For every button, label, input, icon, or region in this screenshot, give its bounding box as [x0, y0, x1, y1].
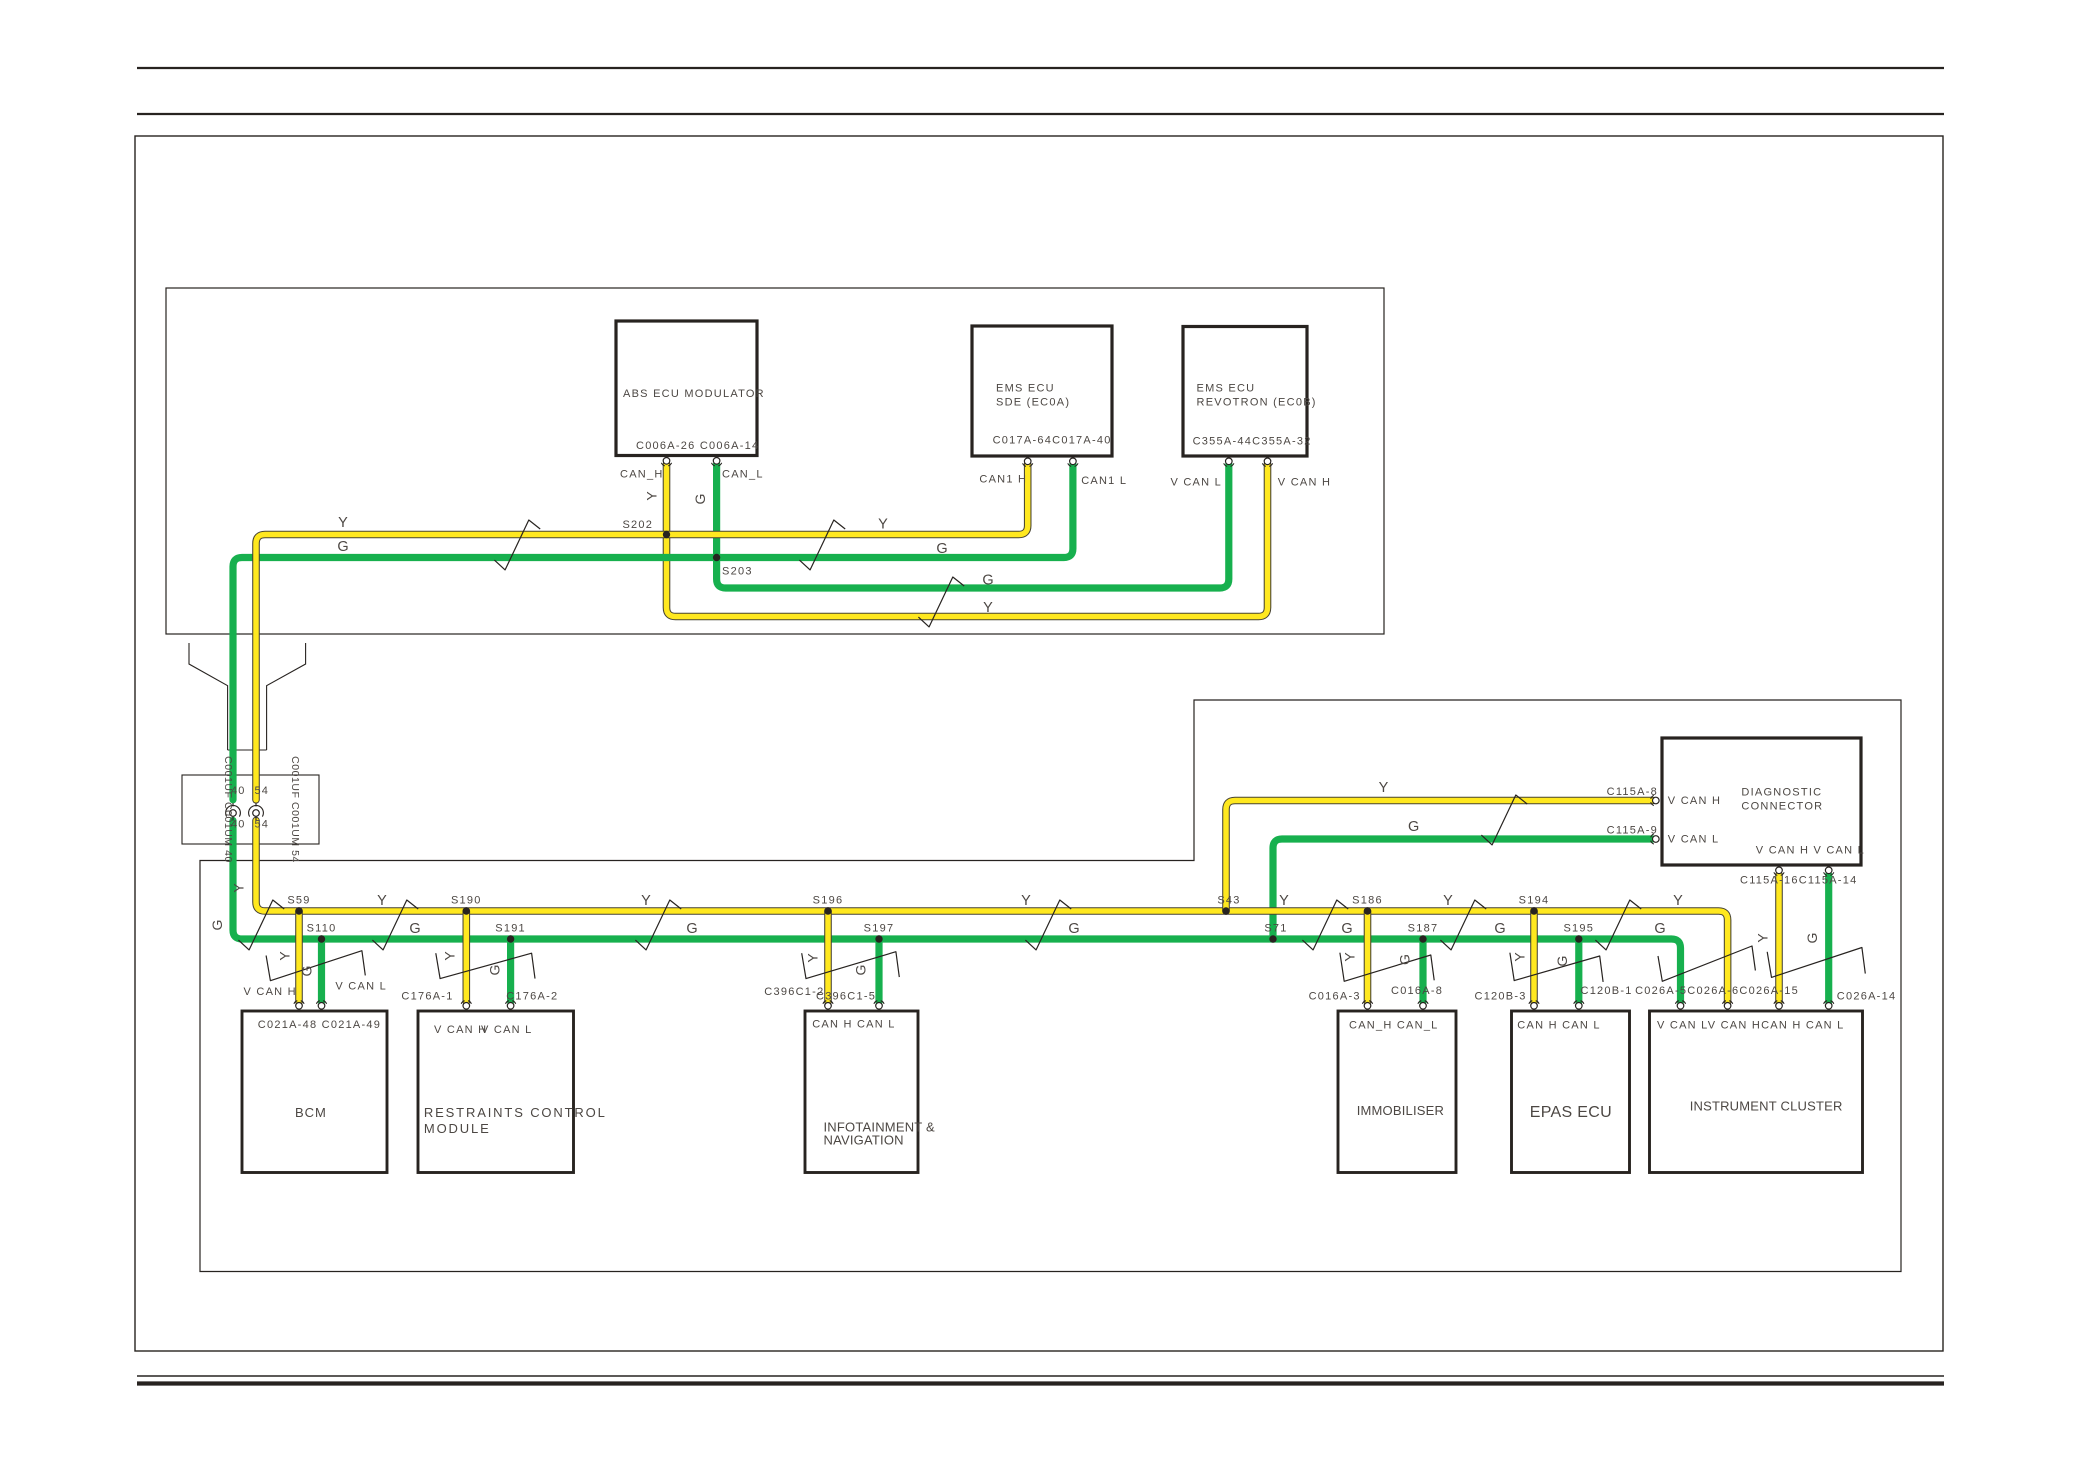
wire yellow: S190 drop to RCM C176A-1 [462, 911, 470, 1002]
wire break mark on lower trunk pair at x=395 [372, 900, 418, 950]
twisted pair mark BCM drops [266, 951, 365, 981]
connector pin C120B-3 [1529, 1001, 1539, 1009]
wire break mark on lower trunk pair at x=1463 [1440, 900, 1486, 950]
svg-text:CONNECTOR: CONNECTOR [1741, 801, 1823, 813]
svg-text:V CAN H: V CAN H [1278, 477, 1331, 489]
svg-text:MODULE: MODULE [424, 1121, 491, 1136]
svg-text:Y: Y [1755, 933, 1771, 943]
wire yellow: S186 drop to immobiliser C016A-3 [1364, 911, 1372, 1002]
module IMMOBILISER box [1338, 1011, 1456, 1173]
svg-text:C355A-44C355A-32: C355A-44C355A-32 [1193, 436, 1312, 448]
inline connector C001UF/C001UM pin 40 [226, 803, 241, 821]
outer border box [135, 136, 1943, 1351]
svg-text:40: 40 [231, 819, 245, 831]
wire green: S110 drop to BCM C021A-49 [318, 939, 325, 1002]
svg-text:G: G [1804, 933, 1820, 944]
svg-text:G: G [1408, 819, 1419, 835]
svg-text:CAN H CAN L: CAN H CAN L [812, 1019, 895, 1031]
svg-text:DIAGNOSTIC: DIAGNOSTIC [1741, 787, 1822, 799]
splice S191 [507, 935, 514, 942]
svg-text:Y: Y [1379, 780, 1389, 796]
wire green: diagnostic C115A-14 drop to instrument cluster C026A-14 [1825, 875, 1832, 1002]
svg-text:Y: Y [1673, 893, 1683, 909]
page frame: top rule 2 [137, 113, 1944, 115]
svg-text:C176A-1: C176A-1 [401, 991, 453, 1003]
svg-text:C016A-8: C016A-8 [1391, 985, 1443, 997]
svg-text:S59: S59 [287, 895, 310, 907]
svg-text:Y: Y [1512, 952, 1528, 962]
svg-text:V CAN L: V CAN L [1170, 477, 1222, 489]
svg-text:RESTRAINTS CONTROL: RESTRAINTS CONTROL [424, 1105, 607, 1120]
wire yellow: S59 drop to BCM C021A-48 [295, 911, 303, 1002]
module DIAGNOSTIC CONNECTOR box [1662, 738, 1861, 865]
connector pin C017A-40 (SDE CAN1 L) [1068, 458, 1078, 466]
svg-text:S186: S186 [1352, 895, 1383, 907]
svg-text:C021A-48 C021A-49: C021A-48 C021A-49 [258, 1019, 381, 1031]
svg-text:S195: S195 [1563, 923, 1594, 935]
wire break mark on lower trunk pair at x=1325 [1302, 900, 1348, 950]
svg-text:ABS ECU MODULATOR: ABS ECU MODULATOR [623, 388, 765, 400]
svg-text:C115A-8: C115A-8 [1607, 786, 1658, 798]
svg-text:40: 40 [231, 785, 245, 797]
svg-text:S71: S71 [1264, 923, 1287, 935]
connector pin C026A-6 [1723, 1001, 1733, 1009]
connector pin C016A-8 [1418, 1001, 1428, 1009]
svg-text:Y: Y [338, 515, 348, 531]
svg-text:54: 54 [255, 819, 269, 831]
svg-text:S194: S194 [1519, 895, 1550, 907]
svg-text:C176A-2: C176A-2 [506, 991, 558, 1003]
svg-text:S196: S196 [813, 895, 844, 907]
svg-text:V CAN H: V CAN H [434, 1024, 487, 1036]
svg-text:G: G [209, 920, 225, 931]
svg-text:V CAN LV CAN HCAN H CAN L: V CAN LV CAN HCAN H CAN L [1657, 1020, 1845, 1032]
splice S190 [463, 907, 470, 914]
wire green: V CAN L trunk below inline connector to green bus and bend to instrument cluster C026A-5 [233, 821, 1681, 1002]
svg-text:C120B-1: C120B-1 [1581, 985, 1633, 997]
svg-text:V CAN L: V CAN L [481, 1024, 533, 1036]
svg-text:G: G [692, 494, 708, 505]
connector pin C176A-1 [461, 1001, 471, 1009]
svg-text:C396C1-5: C396C1-5 [816, 991, 876, 1003]
svg-text:S43: S43 [1217, 895, 1240, 907]
wire break mark on lower trunk pair at x=261 [238, 900, 284, 950]
svg-text:S191: S191 [495, 923, 526, 935]
svg-text:G: G [1494, 921, 1505, 937]
svg-text:S197: S197 [864, 923, 895, 935]
svg-text:G: G [1397, 954, 1413, 965]
splice S186 [1364, 907, 1371, 914]
svg-text:NAVIGATION: NAVIGATION [824, 1133, 904, 1148]
svg-text:G: G [936, 541, 947, 557]
svg-text:G: G [487, 965, 503, 976]
connector pin C017A-64 (SDE CAN1 H) [1023, 458, 1033, 466]
svg-text:Y: Y [1021, 893, 1031, 909]
module EMS ECU REVOTRON (EC0B) box [1183, 327, 1307, 457]
inline connector C001UF/C001UM pin 54 [249, 803, 264, 821]
svg-text:Y: Y [442, 951, 458, 961]
wire break mark on lower trunk pair at x=1048 [1025, 900, 1071, 950]
svg-text:C001UF C001UM 40: C001UF C001UM 40 [222, 756, 234, 863]
svg-text:G: G [337, 539, 348, 555]
svg-text:S190: S190 [451, 895, 482, 907]
svg-text:Y: Y [1342, 952, 1358, 962]
module EPAS ECU box [1512, 1011, 1630, 1173]
svg-text:C120B-3: C120B-3 [1475, 991, 1527, 1003]
splice S59 [295, 907, 302, 914]
svg-text:G: G [1341, 921, 1352, 937]
module INSTRUMENT CLUSTER box [1650, 1011, 1863, 1173]
connector pin C026A-15 [1774, 1001, 1784, 1009]
twisted pair mark instrument cluster C115A drops [1767, 948, 1865, 978]
svg-text:G: G [686, 921, 697, 937]
connector pin C021A-48 [294, 1001, 304, 1009]
connector pin C120B-1 [1574, 1001, 1584, 1009]
connector pin C006A-14 (ABS CAN_L) [712, 458, 722, 466]
svg-text:V CAN L: V CAN L [335, 981, 387, 993]
svg-text:CAN_H: CAN_H [620, 469, 664, 481]
svg-text:V CAN H: V CAN H [244, 986, 297, 998]
connector pin C396C1-2 [823, 1001, 833, 1009]
svg-text:G: G [852, 965, 868, 976]
wire yellow: diagnostic C115A-16 drop to instrument cluster C026A-15 [1775, 875, 1783, 1002]
twisted pair mark RCM drops [436, 953, 535, 978]
svg-text:CAN1 H: CAN1 H [979, 474, 1027, 486]
svg-text:C006A-26 C006A-14: C006A-26 C006A-14 [636, 440, 759, 452]
page frame: bottom thin rule [137, 1375, 1944, 1377]
svg-text:EMS ECU: EMS ECU [996, 383, 1055, 395]
wire yellow: V CAN H upper bus from EMS SDE CAN1 H through S202 down-left to inline connector [256, 464, 1028, 800]
svg-text:Y: Y [805, 953, 821, 963]
wire yellow: S196 drop to infotainment C396C1-2 [824, 911, 832, 1002]
connector pin C115A-9 (diagnostic V CAN L) [1651, 834, 1659, 844]
splice S194 [1530, 907, 1537, 914]
svg-text:IMMOBILISER: IMMOBILISER [1357, 1103, 1444, 1118]
inline connector C001UF/C001UM block box [182, 775, 319, 844]
twisted pair mark EPAS drops [1510, 953, 1603, 982]
connector pin C026A-14 [1824, 1001, 1834, 1009]
connector pin C355A-32 (REVOTRON V CAN H) [1262, 458, 1272, 466]
svg-text:REVOTRON (EC0B): REVOTRON (EC0B) [1197, 397, 1317, 409]
connector pin C115A-14 (diagnostic) [1824, 867, 1834, 875]
page frame: top rule 1 [137, 67, 1944, 69]
svg-text:Y: Y [983, 600, 993, 616]
module EMS ECU SDE (EC0A) box [972, 326, 1112, 456]
svg-text:Y: Y [641, 893, 651, 909]
connector pin C115A-16 (diagnostic) [1774, 867, 1784, 875]
twisted pair mark instrument cluster V CAN drops [1658, 946, 1755, 981]
module RESTRAINTS CONTROL MODULE box [418, 1011, 574, 1173]
svg-text:C115A-16C115A-14: C115A-16C115A-14 [1740, 875, 1857, 887]
wire green: ABS CAN_L drop + V CAN L branch to EMS REVOTRON (via S203) [233, 464, 1229, 800]
wire break mark on lower trunk pair at x=1618 [1595, 900, 1641, 950]
svg-text:V CAN H V CAN L: V CAN H V CAN L [1756, 845, 1865, 857]
svg-text:Y: Y [377, 893, 387, 909]
svg-text:S187: S187 [1408, 923, 1439, 935]
svg-text:C026A-5C026A-6C026A-15: C026A-5C026A-6C026A-15 [1635, 985, 1799, 997]
wire yellow: V CAN H trunk below inline connector to yellow bus and bend to instrument cluster C026A-6 [256, 821, 1728, 1002]
svg-text:CAN_L: CAN_L [722, 469, 764, 481]
splice S195 [1575, 935, 1582, 942]
svg-text:CAN H CAN L: CAN H CAN L [1517, 1020, 1600, 1032]
svg-text:C016A-3: C016A-3 [1309, 991, 1361, 1003]
svg-text:S203: S203 [722, 566, 753, 578]
wire break mark on diagnostic connector pair [1481, 795, 1527, 845]
page frame: bottom thick rule [137, 1381, 1944, 1385]
module BCM box [242, 1011, 387, 1173]
svg-text:Y: Y [644, 491, 660, 501]
svg-text:Y: Y [1279, 893, 1289, 909]
svg-text:SDE (EC0A): SDE (EC0A) [996, 397, 1070, 409]
svg-text:Y: Y [277, 951, 293, 961]
svg-text:V CAN H: V CAN H [1668, 795, 1721, 807]
svg-text:EPAS ECU: EPAS ECU [1530, 1104, 1612, 1121]
wire break mark on REVOTRON branch pair [918, 577, 964, 627]
svg-text:V CAN L: V CAN L [1668, 834, 1720, 846]
svg-text:INSTRUMENT CLUSTER: INSTRUMENT CLUSTER [1690, 1099, 1843, 1114]
splice S197 [875, 935, 882, 942]
wire yellow: S43 tap up to diagnostic connector C115A-8 [1226, 801, 1653, 912]
twisted pair mark immobiliser drops [1340, 953, 1434, 982]
svg-text:C001UF C001UM 54: C001UF C001UM 54 [289, 756, 301, 863]
svg-text:G: G [1554, 956, 1570, 967]
svg-text:C115A-9: C115A-9 [1607, 825, 1658, 837]
connector pin C396C1-5 [874, 1001, 884, 1009]
connector pin C115A-8 (diagnostic V CAN H) [1651, 795, 1659, 805]
connector pin C021A-49 [316, 1001, 326, 1009]
splice S71 [1269, 935, 1276, 942]
svg-text:Y: Y [878, 517, 888, 533]
wire break mark on upper bus pair left of S202 [494, 520, 540, 570]
upper harness region box (engine compartment) [166, 288, 1384, 634]
wire yellow: ABS CAN_H drop + V CAN H branch to EMS REVOTRON (via S202) [667, 464, 1268, 617]
wire green: S187 drop to immobiliser C016A-8 [1419, 939, 1426, 1002]
svg-text:CAN_H CAN_L: CAN_H CAN_L [1349, 1020, 1439, 1032]
wire break mark on upper bus pair right of S203 [799, 520, 845, 570]
svg-text:Y: Y [231, 883, 247, 893]
splice S196 [824, 907, 831, 914]
connector pin C176A-2 [506, 1001, 516, 1009]
wire green: S197 drop to infotainment C396C1-5 [875, 939, 882, 1002]
connector pin C026A-5 [1675, 1001, 1685, 1009]
wire break mark on lower trunk pair at x=658 [635, 900, 681, 950]
svg-text:G: G [409, 921, 420, 937]
splice S110 [318, 935, 325, 942]
svg-text:54: 54 [255, 785, 269, 797]
svg-text:G: G [982, 573, 993, 589]
svg-text:G: G [1654, 921, 1665, 937]
wire green: S195 drop to EPAS C120B-1 [1575, 939, 1582, 1002]
svg-text:S202: S202 [622, 519, 653, 531]
svg-text:G: G [299, 966, 315, 977]
wire green: S191 drop to RCM C176A-2 [507, 939, 514, 1002]
module INFOTAINMENT & NAVIGATION box [805, 1011, 918, 1173]
svg-text:G: G [1068, 921, 1079, 937]
svg-text:CAN1 L: CAN1 L [1081, 475, 1127, 487]
harness branch funnel symbol [189, 643, 306, 750]
splice S202 [663, 531, 670, 538]
splice S187 [1419, 935, 1426, 942]
wire green: S71 tap up to diagnostic connector C115A-9 [1273, 839, 1653, 939]
svg-text:Y: Y [1443, 893, 1453, 909]
connector pin C016A-3 [1362, 1001, 1372, 1009]
connector pin C355A-44 (REVOTRON V CAN L) [1224, 458, 1234, 466]
svg-text:C017A-64C017A-40: C017A-64C017A-40 [993, 435, 1112, 447]
splice S203 [713, 554, 720, 561]
svg-text:EMS ECU: EMS ECU [1197, 383, 1256, 395]
lower harness region box (cabin, stepped outline) [200, 700, 1901, 1272]
twisted pair mark infotainment drops [802, 952, 900, 979]
svg-text:S110: S110 [307, 923, 337, 935]
wire yellow: S194 drop to EPAS C120B-3 [1530, 911, 1538, 1002]
module ABS ECU MODULATOR box [616, 321, 757, 456]
connector pin C006A-26 (ABS CAN_H) [661, 458, 671, 466]
svg-text:BCM: BCM [295, 1105, 327, 1120]
splice S43 [1222, 907, 1229, 914]
svg-text:C026A-14: C026A-14 [1837, 991, 1897, 1003]
